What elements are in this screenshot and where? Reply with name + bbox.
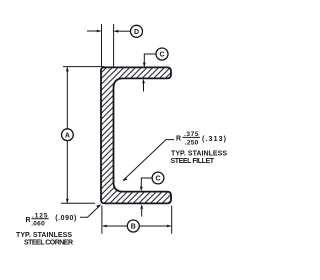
svg-text:D: D [134, 29, 139, 36]
svg-text:STEEL CORNER: STEEL CORNER [24, 240, 73, 247]
R .375 leader [123, 140, 174, 181]
svg-text:C: C [155, 176, 160, 183]
balloon D [131, 25, 143, 37]
R .125 leader [80, 205, 100, 217]
leader C top [144, 54, 156, 66]
svg-text:.250: .250 [185, 140, 199, 147]
D extension line left (web outer, extended up) [101, 24, 103, 66]
A bottom extension line [61, 202, 95, 204]
balloon A [62, 129, 74, 141]
leader C bottom [141, 178, 152, 190]
svg-text:.060: .060 [31, 221, 45, 228]
A dimension line lower [66, 141, 68, 203]
A dimension line upper [66, 67, 68, 128]
svg-text:(.313): (.313) [202, 136, 226, 143]
B extension line right [171, 206, 173, 234]
D extension line right (web inner, extended up) [113, 24, 115, 67]
svg-text:(.090): (.090) [55, 215, 76, 222]
svg-text:R: R [26, 217, 31, 224]
channel cross-section outline with hatch [101, 67, 171, 203]
C top lower arrow [143, 80, 145, 92]
balloon C (top) [156, 48, 168, 60]
D dimension arrow left [87, 30, 101, 32]
svg-text:C: C [159, 52, 164, 59]
svg-text:TYP. STAINLESS: TYP. STAINLESS [16, 232, 72, 239]
B dimension line left with arrow [103, 225, 127, 227]
B extension line left [101, 206, 103, 234]
svg-text:B: B [131, 224, 136, 231]
svg-text:STEEL FILLET: STEEL FILLET [171, 158, 215, 165]
svg-text:R: R [176, 135, 181, 142]
D dimension arrow right (from balloon) [115, 30, 131, 32]
svg-text:A: A [65, 132, 70, 139]
A top extension line [63, 66, 105, 68]
svg-text:TYP. STAINLESS: TYP. STAINLESS [171, 150, 227, 157]
C bottom lower arrow [141, 206, 143, 217]
balloon B [127, 220, 139, 232]
balloon C (bottom) [152, 172, 164, 184]
B dimension line right with arrow [140, 225, 171, 227]
